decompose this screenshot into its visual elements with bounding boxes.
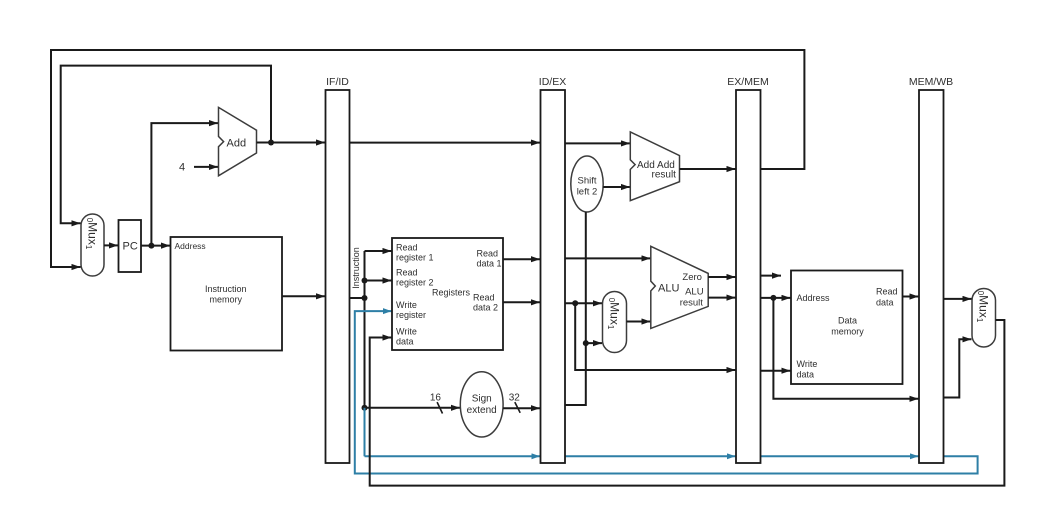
svg-text:Read: Read xyxy=(876,287,898,297)
bus slash 16 xyxy=(437,402,442,413)
mux M5 (MemtoReg) xyxy=(972,289,996,348)
svg-text:data: data xyxy=(876,298,894,308)
svg-text:Instruction: Instruction xyxy=(205,284,247,294)
wire read data 2 to ID/EX xyxy=(503,301,540,303)
pipeline register ID/EX xyxy=(539,76,566,463)
pipeline register EX/MEM xyxy=(727,76,768,463)
wire blue register number to ID/EX xyxy=(365,455,541,457)
mux M1 (PCSrc) xyxy=(81,214,104,276)
svg-text:Read: Read xyxy=(477,249,499,259)
svg-text:left 2: left 2 xyxy=(577,187,598,198)
svg-text:IF/ID: IF/ID xyxy=(326,76,349,88)
wire to read register 2 xyxy=(365,280,392,282)
node read data 2 branch xyxy=(572,300,578,306)
instruction memory xyxy=(171,237,283,351)
wire 4 to Add xyxy=(194,166,218,168)
svg-text:Zero: Zero xyxy=(682,272,702,283)
svg-text:Sign: Sign xyxy=(472,394,492,405)
data memory xyxy=(791,271,903,385)
wire write-register number (blue) down from instruction xyxy=(364,408,366,457)
svg-text:data: data xyxy=(797,370,815,380)
wire blue register number EX/MEM to MEM/WB xyxy=(761,455,919,457)
wire PC+4 ID/EX to Add result adder xyxy=(565,142,630,144)
node instruction junction xyxy=(362,295,368,301)
wire mux M1 to PC xyxy=(104,244,118,246)
wire PC+4 loop from Add output to PC mux xyxy=(61,66,271,224)
svg-text:EX/MEM: EX/MEM xyxy=(727,76,768,88)
wire read data 1 to ID/EX xyxy=(503,258,540,260)
svg-text:Address: Address xyxy=(175,241,206,251)
svg-text:Shift: Shift xyxy=(577,176,596,187)
wire to read register 1 xyxy=(365,250,392,252)
svg-text:Read: Read xyxy=(473,293,495,303)
pipeline register IF/ID xyxy=(326,76,350,463)
node read register 2 junction xyxy=(362,278,368,284)
wire Add output to IF/ID xyxy=(257,142,326,144)
node sign extend branch to mux xyxy=(583,340,589,346)
sign extend unit xyxy=(460,372,503,437)
svg-text:ID/EX: ID/EX xyxy=(539,76,566,88)
node sign-extend branch junction xyxy=(362,405,368,411)
svg-text:PC: PC xyxy=(123,241,138,253)
wire ALU result MEM/WB to mux xyxy=(944,339,972,397)
svg-text:Write: Write xyxy=(396,327,417,337)
svg-text:register 1: register 1 xyxy=(396,253,434,263)
wire ALU result to EX/MEM xyxy=(708,297,735,299)
svg-text:result: result xyxy=(680,297,704,308)
bus slash 32 xyxy=(515,402,520,413)
wire read data to MEM/WB xyxy=(903,296,919,298)
svg-text:4: 4 xyxy=(179,162,185,174)
wire sign extend value to ALUSrc mux xyxy=(586,342,602,344)
svg-text:Address: Address xyxy=(797,293,831,303)
wire sign extend value ID/EX up to shift left 2 xyxy=(565,212,586,405)
wire instruction bus from IF/ID xyxy=(350,297,365,299)
svg-text:register: register xyxy=(396,310,426,320)
ALU U1 xyxy=(651,246,708,328)
svg-text:Registers: Registers xyxy=(432,288,471,298)
svg-text:data 1: data 1 xyxy=(477,259,502,269)
shift left 2 unit xyxy=(571,156,603,212)
wire blue register number ID/EX to EX/MEM xyxy=(565,455,736,457)
wire read data 2 ID/EX to ALUSrc mux xyxy=(565,302,602,304)
pipeline register MEM/WB xyxy=(909,76,953,463)
wire store data down and to EX/MEM xyxy=(575,303,735,370)
node Add output junction xyxy=(268,140,274,146)
wire PC junction up to Add input xyxy=(151,123,218,246)
wire read data MEM/WB to mux xyxy=(944,298,972,300)
svg-text:16: 16 xyxy=(430,393,442,404)
svg-text:memory: memory xyxy=(831,327,864,337)
adder Add result xyxy=(630,132,679,201)
wire branch-target loop from EX/MEM to PC mux (top) xyxy=(51,50,804,267)
wire PC+4 from IF/ID to ID/EX xyxy=(350,142,541,144)
svg-text:Add: Add xyxy=(227,137,247,149)
register PC xyxy=(119,220,142,272)
svg-text:32: 32 xyxy=(509,393,521,404)
node PC output junction xyxy=(148,243,154,249)
wire instruction vertical xyxy=(364,251,366,408)
wire Add result output to EX/MEM xyxy=(680,168,736,170)
svg-text:extend: extend xyxy=(467,405,497,416)
wire blue register number return loop to Write register xyxy=(355,311,978,473)
svg-text:ALU: ALU xyxy=(685,287,704,298)
svg-text:ALU: ALU xyxy=(658,283,679,295)
svg-text:Write: Write xyxy=(797,359,818,369)
wire ALU result bypass to MEM/WB xyxy=(773,298,918,399)
wire write-back data loop to registers write data xyxy=(370,320,1005,486)
svg-text:Read: Read xyxy=(396,243,418,253)
registers block xyxy=(392,238,503,350)
svg-text:data: data xyxy=(396,337,414,347)
wire ALUSrc mux output to ALU xyxy=(627,321,651,323)
svg-text:Data: Data xyxy=(838,316,857,326)
wire instruction memory output to IF/ID xyxy=(282,295,325,297)
wire ALU result EX/MEM to data memory address xyxy=(761,297,791,299)
svg-text:Write: Write xyxy=(396,300,417,310)
svg-text:data 2: data 2 xyxy=(473,303,498,313)
wire sign extend output to ID/EX xyxy=(503,407,540,409)
svg-text:Read: Read xyxy=(396,268,418,278)
svg-text:Instruction: Instruction xyxy=(351,247,361,289)
wire ALU zero to EX/MEM xyxy=(708,276,735,278)
svg-text:result: result xyxy=(652,170,677,181)
wire read data 1 ID/EX to ALU xyxy=(565,257,651,259)
svg-text:MEM/WB: MEM/WB xyxy=(909,76,953,88)
node ALU result branch xyxy=(770,295,776,301)
wire shift left 2 output to Add result adder xyxy=(603,186,630,188)
wire store data EX/MEM to data memory write data xyxy=(761,370,791,372)
svg-text:memory: memory xyxy=(210,295,243,305)
adder Add (PC+4) xyxy=(219,107,257,175)
wire PC to instruction memory address xyxy=(141,245,170,247)
wire to sign extend xyxy=(365,407,461,409)
svg-text:register 2: register 2 xyxy=(396,278,434,288)
mux M2 (ALUSrc) xyxy=(603,292,627,353)
wire zero stub out of EX/MEM xyxy=(761,275,782,277)
